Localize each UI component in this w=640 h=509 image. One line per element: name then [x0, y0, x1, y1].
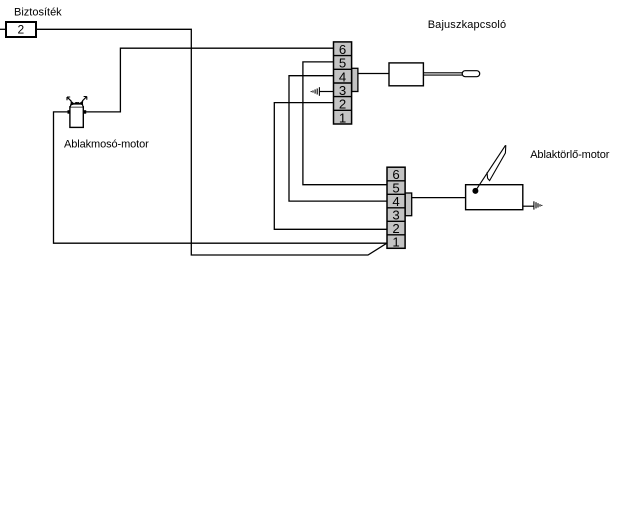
- wire upper pin 2 to lower pin 2: [274, 103, 387, 230]
- wire fuse to lower connector pin 1 (right, down, right, diagonal): [37, 29, 387, 255]
- lower connector pin numbers 6,5,4,3,2,1: [392, 167, 399, 250]
- wire washer motor right terminal to upper connector pin 6: [86, 48, 334, 112]
- wire left stub to fuse: [0, 28, 5, 30]
- wire upper pin 4 to lower pin 4: [289, 76, 387, 201]
- label Biztosíték: [14, 7, 62, 19]
- upper connector block pins 6-1: [334, 42, 352, 124]
- label Bajuszkapcsoló: [428, 19, 507, 31]
- wire lower tab to wiper motor: [412, 197, 466, 199]
- washer pump motor (Ablakmosó-motor): [67, 97, 87, 128]
- svg-text:1: 1: [339, 110, 346, 125]
- stalk switch body (Bajuszkapcsoló): [389, 63, 480, 86]
- wire washer motor left terminal to lower connector pin 1: [54, 112, 387, 243]
- ground at upper connector pin 3: [311, 87, 333, 96]
- wiper motor (Ablaktörlő-motor): [466, 145, 523, 210]
- svg-text:Biztosíték: Biztosíték: [14, 7, 62, 19]
- label Ablaktörlő-motor: [530, 149, 610, 161]
- wire upper tab to stalk switch: [358, 73, 389, 75]
- connector tab upper (pin 4 output): [352, 68, 358, 91]
- connector tab lower (pin 4 output): [405, 193, 412, 216]
- svg-text:Bajuszkapcsoló: Bajuszkapcsoló: [428, 19, 507, 31]
- upper connector pin numbers 6,5,4,3,2,1: [339, 42, 346, 125]
- fuse F (value 2): [6, 22, 36, 37]
- svg-text:Ablakmosó-motor: Ablakmosó-motor: [64, 138, 149, 150]
- ground at wiper motor: [523, 201, 542, 209]
- wire upper pin 5 to lower pin 5: [303, 62, 387, 185]
- svg-text:Ablaktörlő-motor: Ablaktörlő-motor: [530, 149, 610, 161]
- svg-text:1: 1: [392, 235, 399, 250]
- label Ablakmosó-motor: [64, 138, 149, 150]
- lower connector block pins 6-1: [387, 167, 405, 248]
- svg-text:2: 2: [17, 23, 24, 37]
